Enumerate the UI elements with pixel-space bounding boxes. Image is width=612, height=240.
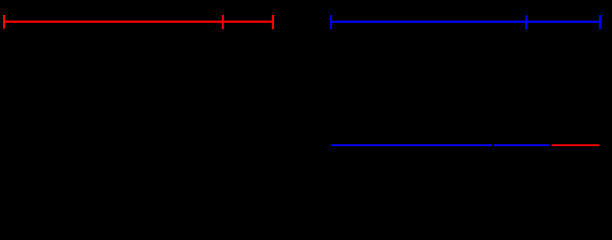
blue interval left tick xyxy=(330,15,332,29)
red interval main line xyxy=(4,21,273,23)
blue interval middle tick xyxy=(525,15,528,29)
blue interval right tick xyxy=(599,15,602,29)
bottom red segment xyxy=(552,144,600,146)
bottom blue segment 1 xyxy=(331,144,492,146)
blue interval main line xyxy=(331,21,600,23)
red interval right tick xyxy=(272,15,274,29)
red interval middle tick xyxy=(222,15,224,29)
bottom blue segment 2 xyxy=(494,144,550,146)
red interval left tick xyxy=(3,15,5,29)
